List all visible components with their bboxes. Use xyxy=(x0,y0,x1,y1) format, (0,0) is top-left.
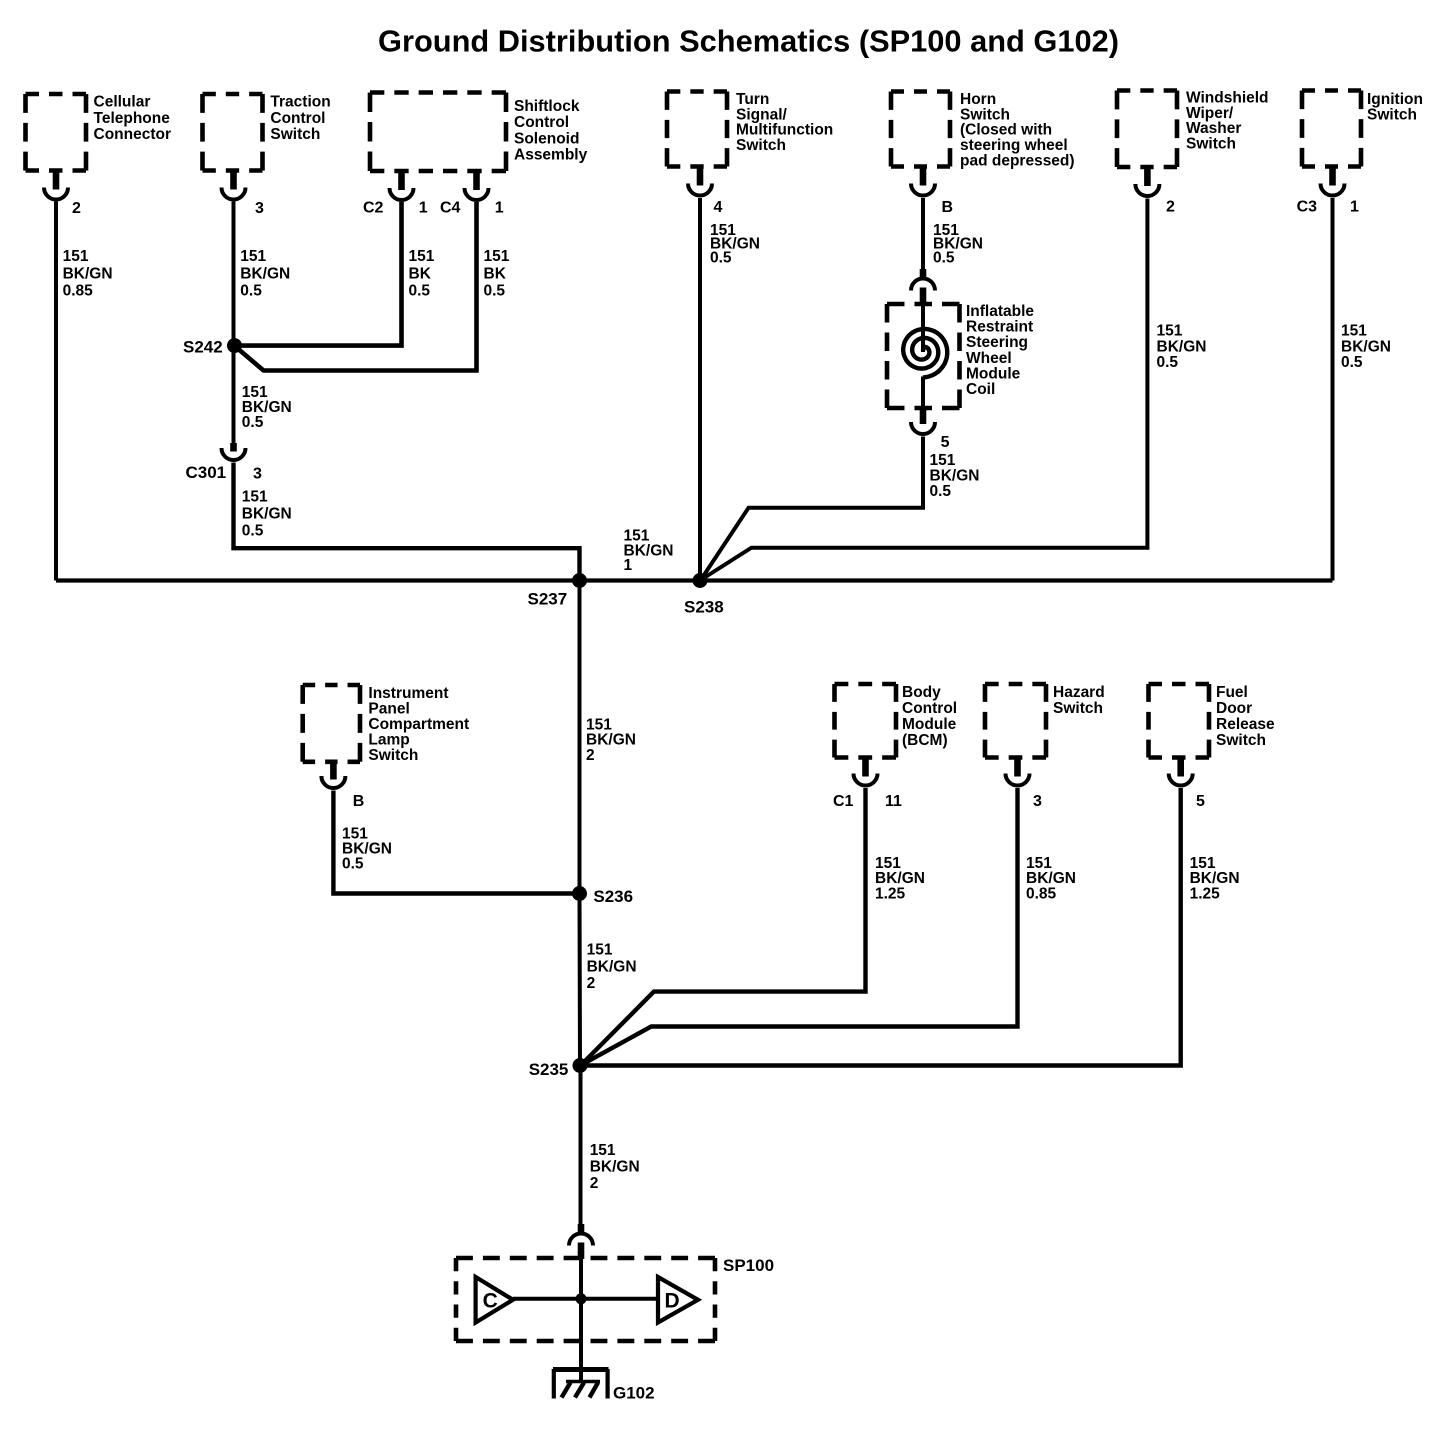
wire S235 down to SP100 xyxy=(579,1066,583,1229)
connector pin C3-1 Ignition xyxy=(1329,165,1336,186)
svg-text:5: 5 xyxy=(1196,793,1205,810)
component box: Inflatable Restraint Steering Wheel Module Coil xyxy=(887,302,960,307)
wire ignition to ground bus xyxy=(1331,198,1335,581)
svg-text:151: 151 xyxy=(63,248,89,265)
svg-text:0.5: 0.5 xyxy=(342,856,364,873)
svg-text:0.5: 0.5 xyxy=(240,283,262,300)
svg-text:4: 4 xyxy=(714,199,723,216)
svg-text:Cellular: Cellular xyxy=(94,94,151,111)
svg-text:S235: S235 xyxy=(529,1060,569,1079)
svg-text:151: 151 xyxy=(484,248,510,265)
svg-text:Steering: Steering xyxy=(966,334,1028,351)
component box SP100 splice pack xyxy=(456,1256,715,1261)
svg-text:3: 3 xyxy=(1033,793,1042,810)
svg-text:0.5: 0.5 xyxy=(242,414,264,431)
svg-text:Switch: Switch xyxy=(1053,700,1103,717)
wire shiftlock C4 to S242 xyxy=(237,202,477,371)
svg-text:151: 151 xyxy=(240,248,266,265)
svg-text:Compartment: Compartment xyxy=(368,716,469,733)
svg-text:0.5: 0.5 xyxy=(409,283,431,300)
connector pin 3 hazard xyxy=(1014,756,1021,777)
connector coil pin 5 xyxy=(920,408,927,424)
svg-text:0.5: 0.5 xyxy=(1341,354,1363,371)
svg-text:Ground Distribution Schematics: Ground Distribution Schematics (SP100 an… xyxy=(378,24,1119,59)
connector pin 5 fuel door xyxy=(1177,756,1184,777)
wire coil pin5 to S238 xyxy=(701,437,923,580)
ground G102 symbol xyxy=(553,1367,609,1372)
wire traction pin3 to S242 xyxy=(232,202,236,346)
connector: Body Control Module box xyxy=(835,682,897,687)
splice S238 xyxy=(693,573,708,588)
svg-text:C301: C301 xyxy=(186,463,227,482)
connector pin 3 Traction xyxy=(230,169,237,190)
wire turn signal pin4 to S238 xyxy=(698,198,702,581)
splice S237 xyxy=(572,573,587,588)
svg-text:Solenoid: Solenoid xyxy=(514,130,579,147)
svg-text:Switch: Switch xyxy=(270,126,320,143)
wire into coil xyxy=(921,304,925,352)
svg-text:BK/GN: BK/GN xyxy=(590,1159,640,1176)
svg-text:Body: Body xyxy=(902,684,941,701)
svg-text:2: 2 xyxy=(72,200,81,217)
svg-text:0.5: 0.5 xyxy=(242,523,264,540)
connector C301 pin 3 xyxy=(230,443,237,452)
svg-text:Coil: Coil xyxy=(966,381,995,398)
svg-text:Hazard: Hazard xyxy=(1053,684,1105,701)
svg-text:BK/GN: BK/GN xyxy=(63,265,113,282)
svg-text:151: 151 xyxy=(590,1142,616,1159)
connector: Traction Control Switch box xyxy=(203,92,263,97)
connector pin B Horn Switch xyxy=(920,165,927,186)
splice S236 xyxy=(572,886,587,901)
wire fuel door to S235 xyxy=(580,788,1181,1066)
svg-text:Switch: Switch xyxy=(1367,107,1417,124)
svg-text:BK/GN: BK/GN xyxy=(930,468,980,485)
svg-text:Switch: Switch xyxy=(368,747,418,764)
svg-text:C2: C2 xyxy=(363,200,384,217)
connector: Windshield Wiper/Washer Switch box xyxy=(1117,88,1177,93)
svg-text:Wheel: Wheel xyxy=(966,350,1012,367)
svg-text:0.5: 0.5 xyxy=(710,249,732,266)
svg-text:Release: Release xyxy=(1216,716,1275,733)
svg-text:Traction: Traction xyxy=(270,94,330,111)
svg-text:Instrument: Instrument xyxy=(368,685,448,702)
connector pin C2-1 Shiftlock xyxy=(398,169,405,190)
svg-text:Door: Door xyxy=(1216,700,1252,717)
svg-text:2: 2 xyxy=(586,747,595,764)
svg-text:0.5: 0.5 xyxy=(1157,354,1179,371)
svg-text:1: 1 xyxy=(495,200,504,217)
svg-text:Switch: Switch xyxy=(1216,732,1266,749)
terminal D triangle xyxy=(658,1277,698,1323)
svg-text:BK/GN: BK/GN xyxy=(242,506,292,523)
wire S242 down to C301 xyxy=(232,346,236,444)
svg-text:C: C xyxy=(483,1290,498,1313)
connector: Instrument Panel Compartment Lamp Switch box xyxy=(303,683,360,688)
wire windshield wiper to S238 xyxy=(702,199,1148,580)
svg-text:pad depressed): pad depressed) xyxy=(960,152,1075,169)
svg-text:Lamp: Lamp xyxy=(368,732,409,749)
connector: Fuel Door Release Switch box xyxy=(1149,682,1210,687)
connector pin 2 Wiper Switch xyxy=(1144,165,1151,186)
svg-text:Module: Module xyxy=(902,716,957,733)
wire hazard to S235 xyxy=(582,788,1018,1065)
svg-text:BK: BK xyxy=(409,265,432,282)
svg-text:Telephone: Telephone xyxy=(94,110,171,127)
wire S237 to S236 xyxy=(578,581,582,894)
svg-text:SP100: SP100 xyxy=(723,1256,774,1275)
wire out of coil xyxy=(921,377,925,410)
coil spiral symbol xyxy=(903,329,947,378)
connector: Cellular Telephone Connector box xyxy=(26,92,87,97)
svg-text:1.25: 1.25 xyxy=(875,885,906,902)
wire horn pinB down xyxy=(921,198,925,271)
wire C to D inside SP100 xyxy=(513,1297,658,1301)
svg-text:Ignition: Ignition xyxy=(1367,91,1423,108)
svg-text:D: D xyxy=(665,1290,680,1313)
connector horn-to-coil (cap) xyxy=(920,269,927,278)
svg-text:G102: G102 xyxy=(613,1384,655,1403)
connector pin C4-1 Shiftlock xyxy=(473,169,480,190)
svg-text:C3: C3 xyxy=(1297,199,1318,216)
svg-text:151: 151 xyxy=(930,452,956,469)
wire S236 to S235 xyxy=(578,894,583,1066)
svg-text:Module: Module xyxy=(966,365,1021,382)
svg-text:BK/GN: BK/GN xyxy=(240,265,290,282)
connector: Turn Signal/Multifunction Switch box xyxy=(667,89,727,94)
svg-text:Switch: Switch xyxy=(1186,135,1236,152)
svg-text:Assembly: Assembly xyxy=(514,147,588,164)
svg-text:151: 151 xyxy=(587,942,613,959)
svg-text:0.85: 0.85 xyxy=(1026,885,1057,902)
wire SP100 to G102 xyxy=(579,1259,583,1382)
svg-text:1: 1 xyxy=(624,557,633,574)
svg-text:B: B xyxy=(942,199,954,216)
svg-text:1: 1 xyxy=(1350,199,1359,216)
svg-text:151: 151 xyxy=(1341,323,1367,340)
connector: Ignition Switch box xyxy=(1302,88,1361,93)
connector into SP100 (cap) xyxy=(578,1224,585,1232)
svg-text:Connector: Connector xyxy=(94,126,172,143)
svg-text:Fuel: Fuel xyxy=(1216,684,1248,701)
connector pin B lamp switch xyxy=(330,760,337,780)
svg-text:Shiftlock: Shiftlock xyxy=(514,98,580,115)
svg-text:2: 2 xyxy=(590,1175,599,1192)
splice S235 xyxy=(573,1058,588,1073)
svg-text:Switch: Switch xyxy=(736,137,786,154)
wire C301 to S237 xyxy=(234,463,580,581)
svg-text:1: 1 xyxy=(419,200,428,217)
svg-text:Inflatable: Inflatable xyxy=(966,303,1034,320)
svg-text:3: 3 xyxy=(255,200,264,217)
svg-text:151: 151 xyxy=(1157,323,1183,340)
svg-text:2: 2 xyxy=(587,975,596,992)
svg-text:BK/GN: BK/GN xyxy=(1157,338,1207,355)
svg-text:BK/GN: BK/GN xyxy=(1341,338,1391,355)
svg-text:Restraint: Restraint xyxy=(966,319,1033,336)
wire lamp switch to S236 xyxy=(333,791,579,894)
wire ground bus S237 S238 xyxy=(56,578,1333,582)
svg-text:S236: S236 xyxy=(593,887,633,906)
svg-text:5: 5 xyxy=(941,434,950,451)
connector: Horn Switch box xyxy=(891,89,950,94)
terminal C triangle xyxy=(476,1277,513,1323)
svg-text:C4: C4 xyxy=(440,200,461,217)
connector pin 4 Turn Signal xyxy=(697,165,704,186)
svg-text:S237: S237 xyxy=(528,590,568,609)
connector pin C1-11 BCM xyxy=(862,756,869,777)
svg-text:11: 11 xyxy=(885,793,902,810)
svg-text:1.25: 1.25 xyxy=(1190,885,1221,902)
svg-text:C1: C1 xyxy=(833,793,854,810)
splice S242 xyxy=(227,338,242,353)
svg-text:B: B xyxy=(353,793,365,810)
svg-text:151: 151 xyxy=(242,489,268,506)
svg-text:Control: Control xyxy=(270,110,325,127)
svg-text:3: 3 xyxy=(253,466,262,483)
wire cellular pin2 to ground bus xyxy=(54,202,58,581)
svg-text:BK/GN: BK/GN xyxy=(587,958,637,975)
svg-text:S238: S238 xyxy=(684,598,724,617)
svg-text:0.5: 0.5 xyxy=(933,249,955,266)
wire shiftlock C2 to S242 xyxy=(238,202,402,346)
svg-text:151: 151 xyxy=(409,248,435,265)
svg-text:S242: S242 xyxy=(183,338,223,357)
svg-text:Panel: Panel xyxy=(368,701,409,718)
svg-text:Control: Control xyxy=(514,114,569,131)
connector pin 2 Cellular xyxy=(53,169,60,190)
svg-text:BK: BK xyxy=(484,265,507,282)
wire BCM to S235 xyxy=(582,788,866,1065)
connector: Shiftlock Control Solenoid Assembly box xyxy=(370,90,506,95)
svg-text:2: 2 xyxy=(1166,199,1175,216)
svg-text:Control: Control xyxy=(902,700,957,717)
svg-text:0.5: 0.5 xyxy=(484,283,506,300)
svg-text:(BCM): (BCM) xyxy=(902,732,948,749)
svg-text:0.5: 0.5 xyxy=(930,483,952,500)
svg-text:0.85: 0.85 xyxy=(63,283,94,300)
connector: Hazard Switch box xyxy=(985,682,1046,687)
